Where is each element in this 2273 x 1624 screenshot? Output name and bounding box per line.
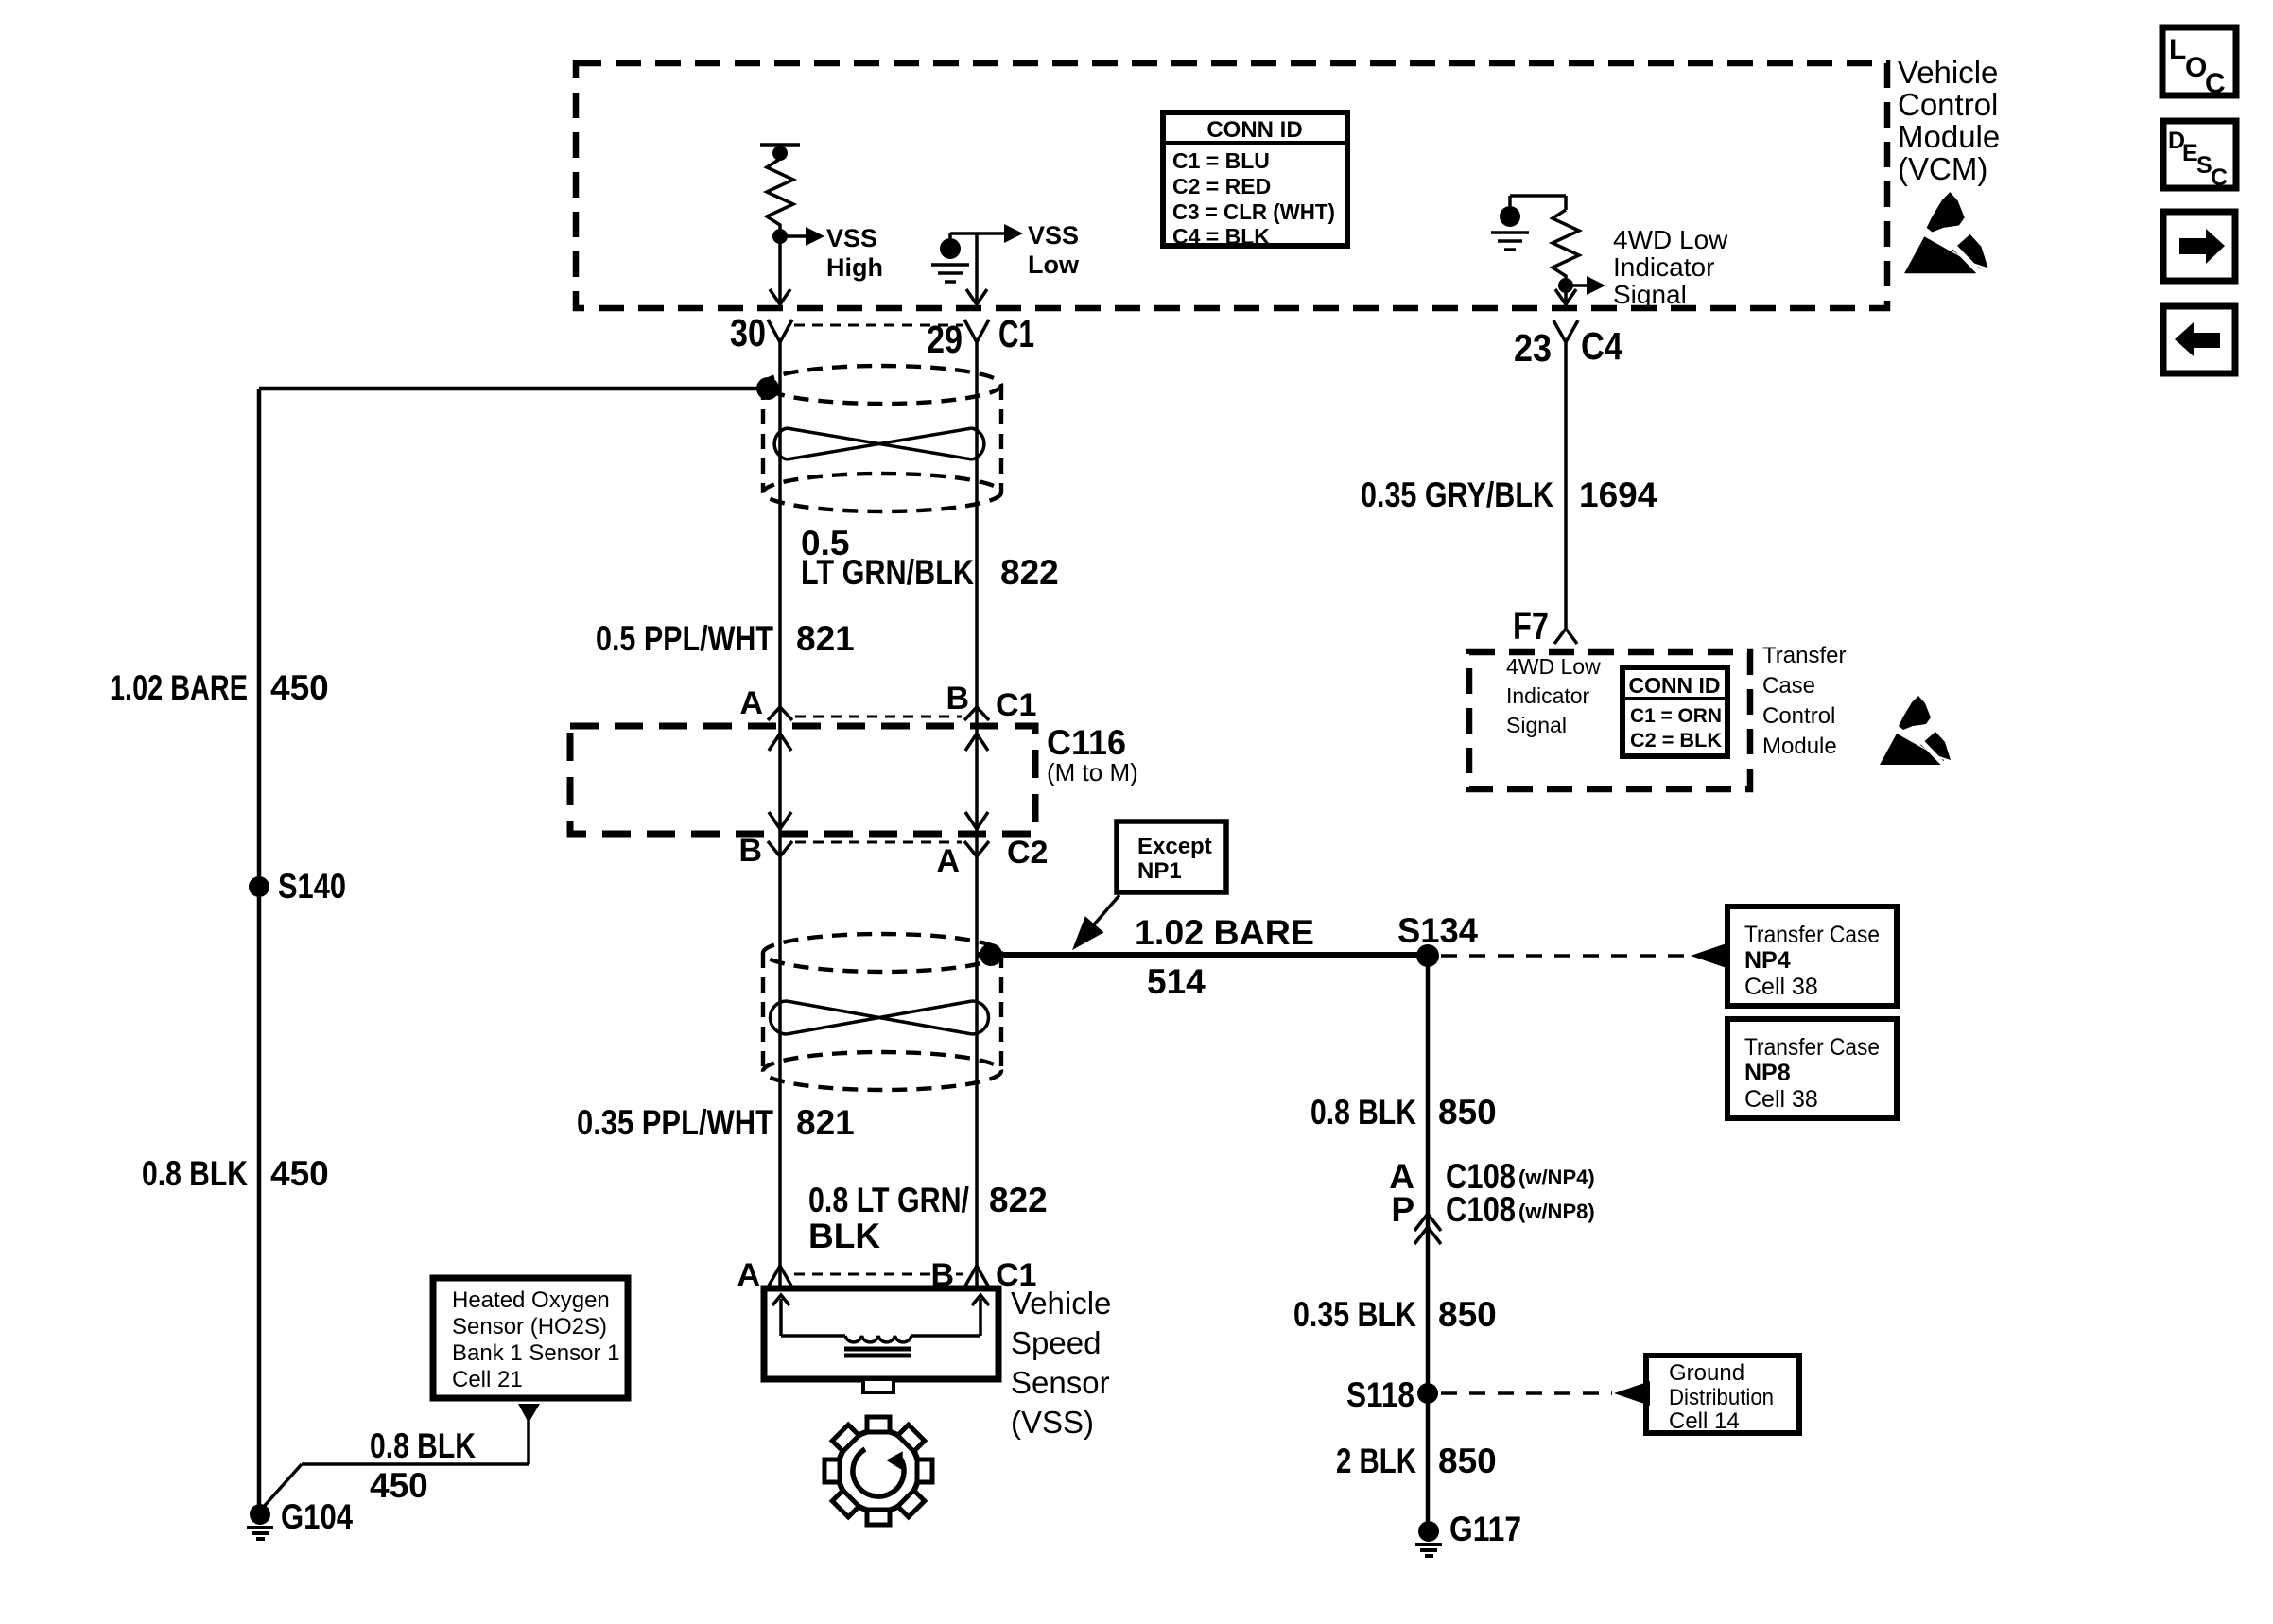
svg-text:821: 821 xyxy=(796,1103,855,1142)
svg-text:G104: G104 xyxy=(281,1497,353,1536)
CONN ID table VCM xyxy=(1163,112,1347,249)
svg-text:F7: F7 xyxy=(1513,604,1549,648)
svg-text:4WD Low: 4WD Low xyxy=(1506,654,1601,679)
pin F7 xyxy=(1513,604,1577,648)
node S118 xyxy=(1346,1375,1438,1414)
svg-text:0.8 BLK: 0.8 BLK xyxy=(370,1426,476,1465)
svg-text:Transfer Case: Transfer Case xyxy=(1744,922,1880,948)
svg-text:C2: C2 xyxy=(1007,835,1048,871)
VSS module label xyxy=(1011,1286,1111,1440)
svg-text:A: A xyxy=(739,685,763,721)
svg-text:C2 = BLK: C2 = BLK xyxy=(1630,730,1722,752)
svg-text:450: 450 xyxy=(270,668,329,707)
icon DESC box xyxy=(2163,121,2236,191)
node S140 xyxy=(249,867,346,906)
svg-text:C: C xyxy=(2205,68,2226,99)
svg-text:0.35 PPL/WHT: 0.35 PPL/WHT xyxy=(577,1103,773,1142)
svg-text:C1: C1 xyxy=(996,687,1036,723)
dashed reference S134 to NP4 box xyxy=(1441,943,1726,968)
svg-text:(VSS): (VSS) xyxy=(1011,1405,1094,1440)
connector C116 box xyxy=(570,723,1138,834)
svg-text:LT GRN/BLK: LT GRN/BLK xyxy=(801,553,974,592)
svg-text:0.8 BLK: 0.8 BLK xyxy=(142,1154,248,1193)
svg-text:Indicator: Indicator xyxy=(1506,683,1590,708)
wire label 0.8 BLK 450 left xyxy=(142,1154,329,1193)
HO2S branch wire 0.8 BLK 450 xyxy=(261,1404,540,1510)
node junction wire29 to bare wire xyxy=(980,943,1002,966)
connector row B / A / C2 below C116 xyxy=(738,833,1048,879)
svg-text:C4 = BLK: C4 = BLK xyxy=(1172,224,1270,249)
wire 30 vertical xyxy=(778,342,782,1288)
TCCM module label xyxy=(1762,643,1846,759)
svg-text:Module: Module xyxy=(1762,734,1837,759)
svg-text:Bank 1 Sensor 1: Bank 1 Sensor 1 xyxy=(452,1340,619,1366)
svg-text:CONN ID: CONN ID xyxy=(1629,673,1721,698)
svg-text:23: 23 xyxy=(1514,326,1552,370)
wire 4WD below VCM xyxy=(1564,342,1568,628)
connector C108 symbol xyxy=(1414,1214,1441,1244)
ground G104 xyxy=(247,1497,353,1539)
ground inside VCM (VSS Low) xyxy=(931,233,969,282)
svg-text:1694: 1694 xyxy=(1579,475,1657,514)
wire S134 column xyxy=(1426,956,1431,1529)
svg-text:Control: Control xyxy=(1762,703,1835,729)
svg-text:S118: S118 xyxy=(1346,1375,1414,1414)
resistor R-VSS-High xyxy=(760,145,800,236)
4WD Low Indicator Signal arrow xyxy=(1566,225,1728,309)
wire 4WD inside VCM xyxy=(1555,285,1576,304)
svg-text:Distribution: Distribution xyxy=(1669,1385,1774,1410)
Vehicle Control Module dashed box xyxy=(576,63,1887,308)
wire label 2 BLK 850 xyxy=(1336,1442,1497,1480)
svg-text:A: A xyxy=(936,843,960,879)
svg-text:High: High xyxy=(826,253,883,282)
connector row A / B / C1 at VSS xyxy=(737,1257,1036,1293)
twisted pair shield 2 xyxy=(763,934,1001,1090)
svg-text:(w/NP8): (w/NP8) xyxy=(1518,1200,1595,1223)
svg-text:C1 = BLU: C1 = BLU xyxy=(1172,148,1270,173)
svg-text:1.02 BARE: 1.02 BARE xyxy=(1135,913,1314,952)
TCCM inside label 4WD Low Indicator Signal xyxy=(1506,654,1601,737)
svg-text:Signal: Signal xyxy=(1506,713,1567,737)
svg-text:Case: Case xyxy=(1762,673,1815,699)
svg-text:850: 850 xyxy=(1438,1295,1497,1334)
svg-text:B: B xyxy=(946,681,969,717)
svg-text:C2 = RED: C2 = RED xyxy=(1172,174,1271,199)
svg-text:O: O xyxy=(2185,52,2207,83)
svg-text:G117: G117 xyxy=(1449,1510,1521,1548)
svg-text:0.8 LT GRN/: 0.8 LT GRN/ xyxy=(808,1181,969,1219)
Except NP1 box xyxy=(1063,821,1226,959)
Ground Distribution box xyxy=(1646,1356,1799,1434)
svg-text:450: 450 xyxy=(370,1466,428,1505)
connector row A / B / C1 above C116 xyxy=(739,681,1036,723)
svg-text:0.5 PPL/WHT: 0.5 PPL/WHT xyxy=(596,619,773,658)
wire label 1.02 BARE 450 xyxy=(110,668,329,707)
svg-text:VSS: VSS xyxy=(826,224,877,252)
Vehicle Speed Sensor box xyxy=(764,1288,998,1392)
VSS High arrow xyxy=(780,224,883,282)
svg-text:C4: C4 xyxy=(1581,324,1622,368)
wire left main vertical xyxy=(257,389,262,1513)
svg-text:821: 821 xyxy=(796,619,855,658)
svg-text:822: 822 xyxy=(989,1181,1048,1219)
svg-text:2 BLK: 2 BLK xyxy=(1336,1442,1416,1480)
svg-text:C108: C108 xyxy=(1446,1190,1516,1229)
svg-text:450: 450 xyxy=(270,1154,329,1193)
svg-text:L: L xyxy=(2169,34,2186,65)
wire label 1.02 BARE 514 xyxy=(1135,913,1314,1001)
svg-text:Except: Except xyxy=(1137,834,1212,859)
ESD symbol TCCM xyxy=(1880,696,1951,767)
icon right-arrow box xyxy=(2163,212,2235,281)
svg-text:1.02 BARE: 1.02 BARE xyxy=(110,668,248,707)
wire label 0.35 BLK 850 xyxy=(1293,1295,1497,1334)
svg-text:C1: C1 xyxy=(998,312,1034,355)
svg-text:B: B xyxy=(738,833,762,869)
svg-text:850: 850 xyxy=(1438,1093,1497,1132)
Heated Oxygen Sensor box xyxy=(433,1278,628,1398)
Transfer Case NP8 box xyxy=(1727,1019,1897,1118)
ground inside VCM (4WD) xyxy=(1491,196,1529,250)
wire label 0.5 PPL/WHT 821 xyxy=(596,619,855,658)
CONN ID table TCCM xyxy=(1622,667,1727,756)
svg-text:0.35 BLK: 0.35 BLK xyxy=(1293,1295,1416,1334)
icon left-arrow box xyxy=(2163,306,2235,373)
svg-text:VSS: VSS xyxy=(1028,221,1079,250)
VSS Low arrow xyxy=(950,221,1080,279)
svg-text:Cell 21: Cell 21 xyxy=(452,1367,523,1392)
svg-text:Signal: Signal xyxy=(1613,280,1687,309)
svg-text:Transfer: Transfer xyxy=(1762,643,1846,668)
wire label 0.5 LT GRN/BLK 822 xyxy=(801,524,1059,592)
resistor R-4WD xyxy=(1510,196,1579,285)
svg-text:822: 822 xyxy=(1000,553,1059,592)
wire label 0.35 PPL/WHT 821 xyxy=(577,1103,855,1142)
gear reluctor wheel xyxy=(824,1417,932,1525)
svg-text:0.35 GRY/BLK: 0.35 GRY/BLK xyxy=(1361,475,1553,514)
svg-text:(VCM): (VCM) xyxy=(1898,151,1987,186)
icon LOC box xyxy=(2162,27,2236,99)
ground G117 xyxy=(1415,1510,1521,1556)
wire label 0.8 LT GRN/BLK 822 xyxy=(808,1181,1048,1255)
node S134 xyxy=(1397,911,1478,967)
node VSS High junction xyxy=(772,229,788,244)
svg-text:C: C xyxy=(2211,164,2228,191)
svg-text:4WD Low: 4WD Low xyxy=(1613,225,1728,254)
wire label 0.8 BLK 850 xyxy=(1310,1093,1497,1132)
VCM module label xyxy=(1898,55,2000,186)
Transfer Case NP4 box xyxy=(1727,907,1897,1006)
svg-text:Vehicle: Vehicle xyxy=(1898,55,1998,90)
svg-text:C116: C116 xyxy=(1047,723,1126,762)
svg-text:Heated Oxygen: Heated Oxygen xyxy=(452,1287,610,1313)
svg-text:CONN ID: CONN ID xyxy=(1206,117,1302,143)
svg-text:Cell 14: Cell 14 xyxy=(1669,1408,1740,1434)
wire label 0.35 GRY/BLK 1694 xyxy=(1361,475,1657,514)
svg-text:Transfer Case: Transfer Case xyxy=(1744,1034,1880,1061)
svg-text:Indicator: Indicator xyxy=(1613,252,1714,282)
svg-text:Vehicle: Vehicle xyxy=(1011,1286,1111,1321)
svg-text:C3 = CLR (WHT): C3 = CLR (WHT) xyxy=(1172,199,1335,224)
svg-text:NP4: NP4 xyxy=(1744,947,1791,974)
ESD symbol VCM xyxy=(1904,192,1988,276)
node junction dot to wire30 xyxy=(756,377,779,400)
twisted pair shield 1 xyxy=(763,366,1001,511)
connector cups at VCM xyxy=(768,320,1578,342)
wire VSS High inside VCM xyxy=(770,236,790,304)
dashed reference S118 to Ground Distribution xyxy=(1441,1381,1650,1406)
svg-text:Sensor: Sensor xyxy=(1011,1365,1110,1400)
wire 29 vertical xyxy=(975,342,979,1288)
svg-text:BLK: BLK xyxy=(808,1217,880,1255)
svg-text:A: A xyxy=(737,1257,760,1293)
Transfer Case Control Module dashed box xyxy=(1469,652,1750,789)
svg-text:P: P xyxy=(1391,1190,1414,1229)
svg-text:0.8 BLK: 0.8 BLK xyxy=(1310,1093,1416,1132)
svg-text:Ground: Ground xyxy=(1669,1360,1744,1386)
svg-text:S140: S140 xyxy=(278,867,346,906)
connector C108 labels xyxy=(1389,1157,1594,1229)
wire VSS Low inside VCM xyxy=(966,233,987,304)
svg-text:C1 = ORN: C1 = ORN xyxy=(1630,705,1722,727)
svg-text:NP8: NP8 xyxy=(1744,1060,1791,1086)
wire 1.02 BARE 514 horizontal xyxy=(977,952,1428,958)
svg-text:S134: S134 xyxy=(1397,911,1478,950)
svg-text:Cell 38: Cell 38 xyxy=(1744,1086,1818,1113)
svg-text:Speed: Speed xyxy=(1011,1325,1101,1360)
svg-text:Control: Control xyxy=(1898,87,1998,122)
svg-text:Module: Module xyxy=(1898,119,2000,154)
svg-text:(w/NP4): (w/NP4) xyxy=(1518,1166,1595,1189)
svg-text:NP1: NP1 xyxy=(1137,858,1182,884)
svg-text:30: 30 xyxy=(730,311,766,354)
svg-text:Cell 38: Cell 38 xyxy=(1744,974,1818,1000)
node 4WD junction xyxy=(1558,278,1573,293)
svg-text:850: 850 xyxy=(1438,1442,1497,1480)
svg-text:Sensor (HO2S): Sensor (HO2S) xyxy=(452,1314,607,1339)
svg-text:Low: Low xyxy=(1028,251,1080,279)
svg-text:514: 514 xyxy=(1147,962,1206,1001)
wire left horizontal run xyxy=(259,387,768,391)
svg-text:(M to M): (M to M) xyxy=(1047,758,1138,786)
